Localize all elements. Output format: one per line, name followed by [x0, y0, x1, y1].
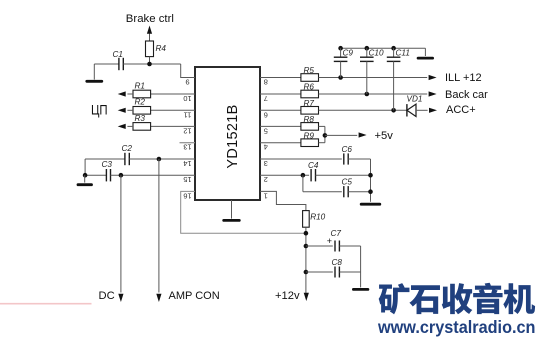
svg-text:9: 9	[185, 78, 189, 87]
resistor R1	[133, 81, 151, 97]
wire	[319, 109, 407, 111]
resistor R6	[301, 83, 319, 98]
node C10-Back junction	[365, 92, 370, 97]
svg-text:R4: R4	[156, 44, 167, 53]
svg-text:C8: C8	[332, 258, 343, 267]
svg-text:R3: R3	[135, 114, 146, 123]
wire	[340, 61, 342, 77]
svg-text:2: 2	[264, 175, 268, 184]
wire	[339, 271, 360, 273]
wire	[94, 63, 119, 65]
ground G5	[418, 48, 433, 58]
resistor R3	[133, 114, 151, 130]
node brake junction	[147, 62, 152, 67]
svg-text:6: 6	[264, 110, 268, 119]
svg-text:R8: R8	[304, 115, 315, 124]
node C10 bus junction	[365, 46, 370, 51]
svg-text:1: 1	[264, 191, 268, 200]
wire	[366, 61, 368, 94]
wire	[319, 93, 428, 95]
svg-text:ЦП: ЦП	[91, 101, 108, 117]
wire	[366, 48, 368, 57]
svg-text:C9: C9	[343, 49, 354, 58]
svg-text:ACC+: ACC+	[446, 104, 476, 116]
capacitor C5	[342, 178, 353, 198]
arrow left R1	[118, 91, 133, 96]
wire	[319, 125, 325, 127]
arrow up Brake ctrl	[147, 26, 152, 42]
wire	[393, 61, 395, 110]
svg-text:4: 4	[264, 143, 268, 152]
artifact line	[0, 303, 92, 305]
node C9-ILL junction	[338, 75, 343, 80]
capacitor C6	[342, 145, 353, 165]
wire	[111, 174, 196, 176]
wire	[260, 77, 301, 79]
svg-text:AMP CON: AMP CON	[169, 290, 220, 302]
wire	[151, 125, 195, 127]
svg-text:5: 5	[264, 126, 268, 135]
wire	[360, 246, 362, 272]
arrow down AMP CON	[156, 294, 161, 302]
svg-text:C4: C4	[308, 161, 319, 170]
capacitor C11	[387, 49, 410, 62]
arrow left R3	[118, 124, 133, 129]
capacitor C8	[332, 258, 343, 278]
wire	[85, 174, 107, 176]
svg-text:DC: DC	[99, 290, 115, 302]
svg-text:C11: C11	[396, 49, 410, 58]
svg-text:12: 12	[183, 126, 191, 135]
wire	[149, 57, 151, 64]
svg-text:C5: C5	[342, 178, 353, 187]
svg-text:16: 16	[183, 191, 191, 200]
svg-text:C1: C1	[113, 50, 123, 59]
svg-text:+12v: +12v	[275, 290, 300, 302]
wire	[151, 93, 195, 95]
resistor R8	[301, 115, 319, 130]
wire	[260, 191, 306, 210]
svg-text:VD1: VD1	[407, 95, 423, 104]
resistor R7	[301, 99, 319, 114]
svg-text:15: 15	[183, 175, 191, 184]
svg-text:R1: R1	[135, 81, 145, 90]
wire	[180, 142, 196, 144]
svg-text:C10: C10	[369, 49, 384, 58]
resistor R2	[133, 98, 151, 114]
diode VD1	[407, 95, 423, 117]
svg-text:13: 13	[183, 143, 191, 152]
wire	[305, 227, 307, 295]
svg-text:C3: C3	[102, 160, 113, 169]
node C4 right junction	[368, 173, 373, 178]
svg-text:R5: R5	[304, 66, 315, 75]
wire	[158, 159, 160, 293]
svg-text:R7: R7	[304, 99, 315, 108]
arrow right +5v	[359, 132, 367, 137]
svg-text:C7: C7	[331, 229, 342, 238]
wire	[348, 191, 370, 193]
arrow right ILL	[429, 75, 437, 80]
ground G3	[224, 200, 240, 220]
node C9 bus junction	[338, 46, 343, 51]
resistor R9	[301, 131, 319, 146]
wire	[319, 142, 325, 144]
svg-text:10: 10	[183, 94, 191, 103]
op-amp U1 YD1521B body	[195, 67, 260, 200]
svg-text:Back car: Back car	[445, 89, 488, 101]
node AMP CON junction	[157, 157, 162, 162]
node C5 right junction	[368, 189, 373, 194]
wire	[181, 64, 195, 78]
wire	[316, 174, 371, 176]
svg-text:R9: R9	[304, 131, 315, 140]
wire	[84, 159, 86, 175]
svg-text:YD1521B: YD1521B	[225, 104, 241, 168]
svg-text:7: 7	[264, 94, 268, 103]
svg-text:3: 3	[264, 159, 268, 168]
wire	[393, 48, 395, 57]
capacitor C4	[308, 161, 319, 181]
ground G2	[78, 175, 92, 185]
node left gnd junction	[83, 173, 88, 178]
svg-text:+5v: +5v	[375, 130, 394, 142]
capacitor C9	[334, 49, 354, 62]
wire	[319, 77, 428, 79]
arrow right Back car	[429, 91, 437, 96]
wire	[348, 158, 370, 160]
wire	[181, 191, 306, 233]
node +5v junction	[323, 133, 328, 138]
ground G6	[353, 272, 368, 289]
wire	[370, 159, 372, 201]
wire	[85, 158, 125, 160]
capacitor C1	[113, 50, 124, 70]
wire	[260, 142, 301, 144]
resistor R5	[301, 66, 319, 81]
svg-text:ILL +12: ILL +12	[445, 72, 482, 84]
svg-text:R2: R2	[135, 98, 146, 107]
node C11 bus junction	[391, 46, 396, 51]
wire	[123, 63, 180, 65]
node R10 bottom node	[304, 231, 309, 236]
ground G1	[87, 64, 102, 81]
svg-text:14: 14	[183, 159, 191, 168]
node C8 node	[304, 270, 309, 275]
wire	[341, 47, 426, 49]
svg-text:www.crystalradio.cn: www.crystalradio.cn	[377, 317, 535, 337]
wire	[306, 271, 333, 273]
wire	[260, 158, 342, 160]
wire	[303, 191, 342, 193]
node C4 left junction	[301, 173, 306, 178]
wire	[120, 175, 122, 292]
wire	[302, 175, 304, 192]
resistor R10	[303, 211, 326, 228]
wire	[325, 134, 357, 136]
wire	[151, 109, 195, 111]
resistor R4	[146, 41, 167, 57]
svg-text:+: +	[327, 236, 332, 246]
wire	[260, 174, 309, 176]
capacitor C3	[102, 160, 113, 181]
wire	[324, 126, 326, 142]
arrow down +12v	[304, 293, 309, 301]
wire	[339, 245, 360, 247]
node DC junction	[119, 173, 124, 178]
wire	[306, 245, 333, 247]
capacitor C2	[122, 144, 133, 165]
node C11-ACC junction	[391, 108, 396, 113]
arrow down DC	[118, 294, 123, 302]
node C7 node	[304, 244, 309, 249]
wire	[260, 109, 301, 111]
wire	[260, 93, 301, 95]
wire	[340, 48, 342, 57]
svg-text:C6: C6	[342, 145, 353, 154]
arrow left R2	[118, 108, 133, 113]
arrow right ACC+	[429, 108, 437, 113]
capacitor C7	[327, 229, 342, 251]
ground G4	[361, 201, 380, 205]
svg-text:R6: R6	[304, 83, 315, 92]
svg-text:8: 8	[264, 78, 268, 87]
wire	[260, 125, 301, 127]
svg-text:11: 11	[184, 110, 192, 119]
svg-text:R10: R10	[310, 213, 325, 222]
wire	[129, 158, 195, 160]
svg-text:Brake ctrl: Brake ctrl	[126, 13, 174, 25]
watermark logo text	[379, 283, 535, 315]
wire	[416, 109, 428, 111]
svg-text:C2: C2	[122, 144, 133, 153]
capacitor C10	[360, 49, 384, 62]
